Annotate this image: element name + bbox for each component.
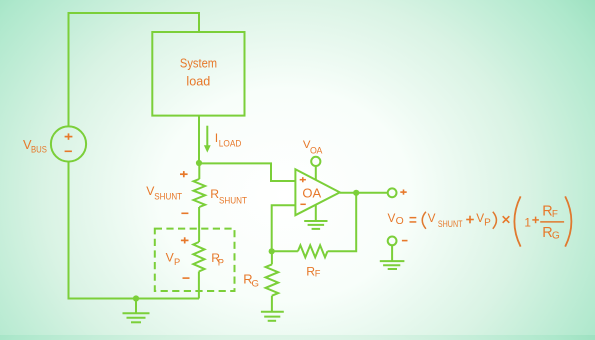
output minus label: [402, 240, 408, 242]
svg-text:System: System: [180, 57, 217, 71]
system load box: [152, 32, 244, 116]
node junction at shunt top: [196, 160, 202, 166]
op-amp ground: [304, 205, 327, 229]
V_SHUNT polarity minus: [181, 213, 188, 215]
formula big right paren: [565, 196, 571, 246]
V_BUS label: [23, 137, 47, 155]
svg-text:G: G: [252, 279, 259, 290]
voltage source V_BUS: [51, 126, 86, 161]
wire R_P bottom to ground rail: [198, 272, 200, 299]
wire top loop from VBUS to system load: [69, 13, 200, 127]
svg-text:BUS: BUS: [31, 145, 47, 155]
wire R_SHUNT to R_P: [198, 207, 200, 242]
svg-text:SHUNT: SHUNT: [154, 191, 182, 201]
feedback node junction: [269, 248, 275, 254]
R_F label: [306, 265, 321, 279]
svg-text:P: P: [174, 257, 180, 267]
wire R_F to output branch: [328, 193, 357, 252]
V_P polarity plus: [181, 237, 189, 243]
wire VBUS bottom to ground rail: [69, 162, 200, 299]
op-amp minus pin mark: [300, 204, 305, 206]
resistor R_SHUNT: [194, 179, 206, 207]
wire node to R_SHUNT: [198, 163, 200, 179]
svg-text:F: F: [552, 209, 558, 220]
op-amp OA label: [302, 186, 321, 201]
svg-text:R: R: [210, 187, 219, 201]
formula big left paren: [514, 196, 520, 246]
svg-text:I: I: [215, 131, 218, 145]
svg-text:load: load: [186, 74, 210, 88]
op-amp plus pin mark: [300, 177, 306, 182]
wire op-amp minus input to feedback node: [272, 205, 296, 251]
resistor R_G: [266, 264, 279, 295]
svg-text:V: V: [476, 211, 484, 225]
svg-text:V: V: [428, 211, 436, 225]
V_OA label: [303, 139, 323, 155]
R_G label: [243, 272, 259, 290]
wire system load bottom to shunt node: [198, 116, 200, 163]
svg-text:P: P: [484, 218, 491, 229]
output plus label: [400, 189, 406, 194]
I_LOAD label: [215, 131, 242, 149]
wire node to R_F: [272, 250, 298, 252]
ground under minus terminal: [380, 245, 405, 269]
wire op-amp output: [340, 192, 388, 194]
formula V_O = (V_SHUNT + V_P) x (1 + RF/RG): [388, 204, 560, 242]
dashed box around V_P source: [155, 229, 235, 291]
resistor R_P: [193, 242, 204, 272]
I_LOAD current arrow: [204, 126, 211, 153]
V_OA supply terminal circle: [311, 157, 320, 180]
resistor R_F: [298, 245, 328, 257]
output terminal minus circle: [388, 237, 397, 246]
svg-text:O: O: [396, 216, 404, 227]
svg-text:P: P: [218, 258, 224, 268]
wire node to op-amp + input: [199, 163, 295, 181]
V_P label: [166, 251, 181, 268]
svg-text:V: V: [388, 211, 396, 225]
wire node to R_G: [271, 251, 273, 264]
output node junction: [353, 190, 359, 196]
junction dot on ground rail: [133, 295, 139, 301]
svg-text:LOAD: LOAD: [219, 139, 242, 149]
svg-text:OA: OA: [302, 186, 321, 201]
V_SHUNT polarity plus: [180, 171, 188, 177]
R_SHUNT label: [210, 187, 247, 205]
R_P label: [211, 251, 224, 268]
svg-text:SHUNT: SHUNT: [219, 195, 247, 205]
svg-text:OA: OA: [310, 145, 323, 155]
svg-text:1: 1: [524, 216, 531, 230]
V_SHUNT label: [146, 184, 182, 201]
V_P polarity minus: [183, 277, 190, 279]
svg-text:G: G: [552, 231, 560, 242]
formula fraction bar: [540, 221, 564, 223]
svg-text:SHUNT: SHUNT: [438, 219, 463, 229]
ground symbol bottom-left: [123, 299, 150, 323]
svg-text:F: F: [315, 269, 321, 279]
op-amp OA triangle: [295, 169, 339, 215]
output terminal plus circle: [388, 188, 397, 197]
ground under R_G: [261, 296, 284, 321]
system load label: [180, 57, 217, 89]
